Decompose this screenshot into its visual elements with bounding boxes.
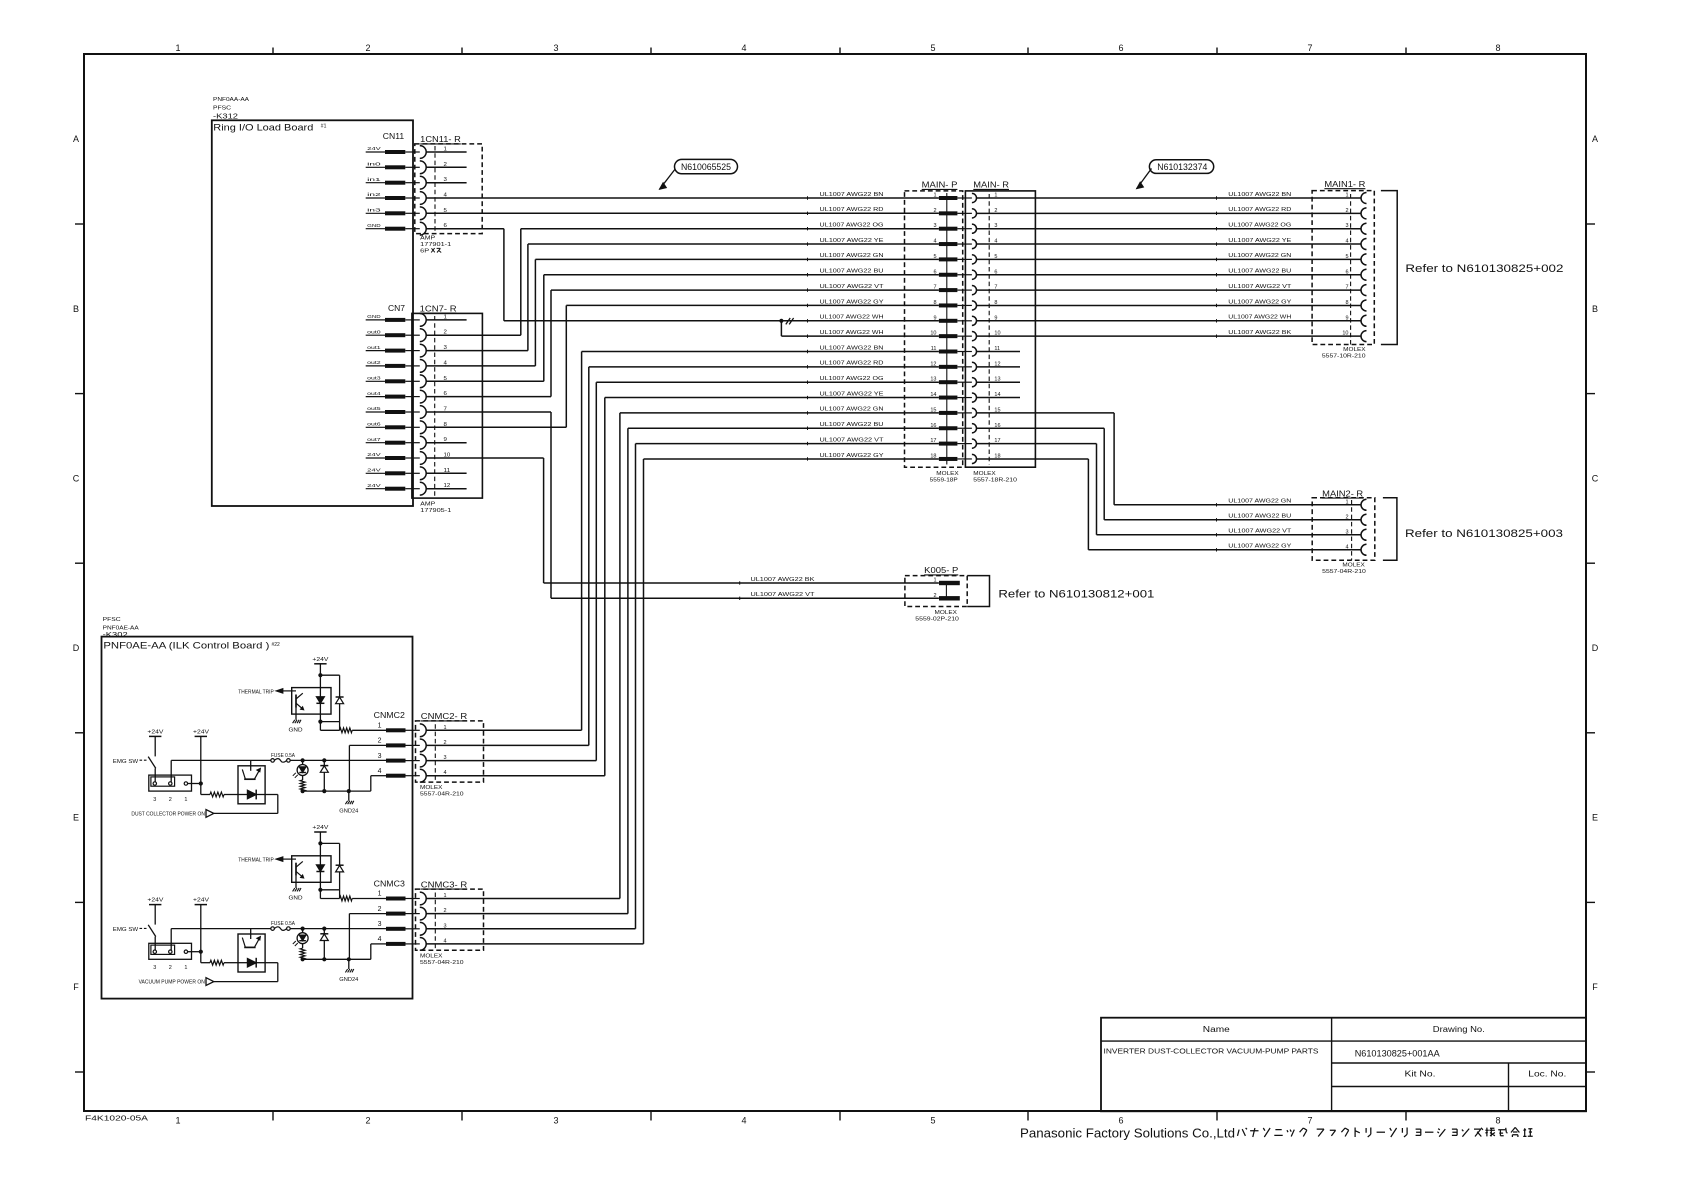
MAIN-P to MAIN-R mating wire pin 1 xyxy=(957,197,972,199)
wire 1CN7-R pin 8 vertical rise xyxy=(565,305,567,427)
wire MAIN-P pin 15 (GN) horizontal xyxy=(620,412,939,414)
clamp diode D1 cathode bar (CNMC2 thermal) xyxy=(336,696,344,698)
svg-text:D: D xyxy=(73,643,80,653)
indicator LED wire down (CNMC3) xyxy=(302,944,304,949)
switch EMG SW dashed link (CNMC2) xyxy=(140,759,149,761)
wire MAIN-P pin 16 (BU) horizontal xyxy=(628,427,939,429)
svg-text:10: 10 xyxy=(1342,331,1348,337)
phototransistor base bar (CNMC2 thermal) xyxy=(295,695,297,708)
wire resistor R2 to optocoupler (CNMC3) xyxy=(224,962,238,964)
resistor R2 (CNMC3 opto drive) xyxy=(210,960,224,965)
svg-text:3: 3 xyxy=(153,965,156,971)
MAIN-P to MAIN-R mating wire pin 7 xyxy=(957,289,972,291)
ground symbol GND24 (CNMC2) xyxy=(345,801,353,804)
MAIN-R pin 7 socket arc xyxy=(972,286,977,295)
border frame xyxy=(84,54,1586,1111)
MAIN-P pin 12 bar xyxy=(939,365,958,369)
svg-text:4: 4 xyxy=(378,768,382,775)
wire corner down (CNMC2) xyxy=(277,795,279,814)
connector 1CN11-R internal dashed line xyxy=(434,146,436,234)
wire bus vertical to CNMC3-R pin 2 xyxy=(627,428,629,913)
junction dot contact feed (CNMC2) xyxy=(199,781,203,785)
MAIN1-R wire tick pin 2 xyxy=(1216,212,1218,215)
ground GND24 lead (CNMC2) xyxy=(348,791,350,801)
svg-text:A: A xyxy=(1592,134,1598,144)
wire corner down (CNMC3) xyxy=(277,963,279,982)
board K302 ILK Control Board outline xyxy=(102,637,413,999)
wire to resistor R2 (CNMC2) xyxy=(201,794,210,796)
CN11 pin 6 lead xyxy=(366,228,385,230)
svg-text:UL1007 AWG22 YE: UL1007 AWG22 YE xyxy=(820,391,884,397)
signal flag triangle (CNMC2) xyxy=(206,810,214,818)
MAIN-P wire tick pin 1 xyxy=(807,196,809,199)
svg-text:5559-18P: 5559-18P xyxy=(930,478,959,484)
svg-text:C: C xyxy=(1592,473,1599,483)
phototransistor base bar (CNMC3 thermal) xyxy=(295,863,297,876)
1CN7-R pin 1 socket arc xyxy=(405,319,420,321)
svg-text:out0: out0 xyxy=(367,329,381,335)
wire contact 1 to junction (CNMC3) xyxy=(188,951,201,953)
svg-text:UL1007 AWG22 WH: UL1007 AWG22 WH xyxy=(820,315,884,321)
CNMC2-R pin 4 socket arc xyxy=(406,775,420,777)
indicator LED emission arrows (CNMC3) xyxy=(295,943,298,946)
svg-text:4: 4 xyxy=(444,938,447,944)
wire MAIN-P pin 11 (BN) horizontal xyxy=(582,351,939,353)
MAIN-P wire tick pin 12 xyxy=(807,365,809,368)
wire MAIN-R pin 2 to MAIN1-R pin 2 (RD) xyxy=(977,212,1362,214)
CN7 pin 10 lead xyxy=(366,457,385,459)
connector MAIN2-R dashed outline xyxy=(1312,498,1375,561)
wire GND branch vertical xyxy=(780,321,782,336)
connector MAIN-P label underline xyxy=(922,188,958,190)
CN11 pin 1 lead xyxy=(366,151,385,153)
svg-text:EMG SW: EMG SW xyxy=(113,927,138,933)
wire horizontal to CNMC3-R pin 4 xyxy=(426,943,643,945)
1CN11-R pin 2 socket arc xyxy=(405,166,420,168)
svg-text:Refer to N610130825+003: Refer to N610130825+003 xyxy=(1405,528,1563,540)
wire riser to pin 4 (CNMC3) xyxy=(370,944,372,959)
connector CNMC2-R dashed outline xyxy=(416,721,484,782)
CN7 pin 2 lead xyxy=(366,334,385,336)
connector MAIN1-R label underline xyxy=(1324,188,1365,190)
svg-text:5: 5 xyxy=(1345,254,1348,260)
MAIN-P to MAIN-R mating wire pin 2 xyxy=(957,212,972,214)
MAIN-P to MAIN-R mating wire pin 6 xyxy=(957,274,972,276)
svg-text:2: 2 xyxy=(933,593,936,599)
CN11 pin 2 lead xyxy=(366,166,385,168)
contact terminal 3 circle (CNMC3) xyxy=(153,950,156,953)
MAIN-P pin 8 bar xyxy=(939,303,958,307)
svg-text:1: 1 xyxy=(184,965,187,971)
svg-text:UL1007 AWG22 BN: UL1007 AWG22 BN xyxy=(820,192,884,198)
wire to MAIN-P pin 8 (GY) xyxy=(566,304,939,306)
svg-text:MOLEX: MOLEX xyxy=(420,785,443,791)
balloon label N610132374 xyxy=(1149,160,1213,174)
wire GND branch to MAIN-P pin 10 (WH) xyxy=(781,335,939,337)
power +24V bar (EMG CNMC3) xyxy=(149,904,161,906)
MAIN1-R pin 7 socket arc xyxy=(1361,285,1366,296)
MAIN-P pin 2 bar xyxy=(939,211,958,215)
1CN7-R pin 12 stub wire xyxy=(426,488,466,490)
MAIN-P wire tick pin 14 xyxy=(807,396,809,399)
junction dot clamp D2 (CNMC3) xyxy=(322,927,326,931)
resistor R1 (CNMC2 thermal, to pin 1) xyxy=(340,728,353,733)
svg-text:UL1007 AWG22 VT: UL1007 AWG22 VT xyxy=(820,437,885,443)
clamp diode D2 triangle (CNMC2) xyxy=(320,766,328,773)
wire MAIN-R pin 3 to MAIN1-R pin 3 (OG) xyxy=(977,228,1362,230)
svg-text:6: 6 xyxy=(1345,269,1348,275)
CN11 pin 4 lead xyxy=(366,197,385,199)
wire 1CN7-R pin 6 vertical rise xyxy=(550,290,552,397)
K005-P wire tick pin 1 xyxy=(739,581,741,584)
svg-text:out4: out4 xyxy=(367,391,381,397)
1CN11-R pin 1 stub wire xyxy=(426,151,466,153)
clamp diode D2 wire down (CNMC2) xyxy=(323,772,325,791)
optocoupler box (CNMC3 thermal trip) xyxy=(292,856,331,883)
1CN7-R pin 9 stub wire xyxy=(426,442,466,444)
wire GND vertical drop xyxy=(503,229,505,321)
opto input LED cathode bar (CNMC3 relay) xyxy=(255,958,257,968)
svg-text:CN11: CN11 xyxy=(383,132,405,141)
CN7 pin 10 bar xyxy=(385,456,405,460)
MAIN-P pin 11 bar xyxy=(939,350,958,354)
wire to resistor R2 (CNMC3) xyxy=(201,962,210,964)
wire MAIN-R pin 15 vertical drop xyxy=(1113,413,1115,505)
wire junction to clamp diode (CNMC2 thermal) xyxy=(320,674,339,676)
MAIN-R pin 5 socket arc xyxy=(972,255,977,264)
wire MAIN-R pin 6 to MAIN1-R pin 6 (BU) xyxy=(977,274,1362,276)
opto collector riser to rail (CNMC3) xyxy=(250,929,252,939)
CN7 pin 11 lead xyxy=(366,472,385,474)
MAIN-P pin 5 bar xyxy=(939,257,958,261)
MAIN-P wire tick pin 3 xyxy=(807,227,809,230)
wire +24V to junction (CNMC3 thermal) xyxy=(319,832,321,843)
1CN7-R pin 12 socket arc xyxy=(405,488,420,490)
svg-text:N610065525: N610065525 xyxy=(681,162,731,172)
MAIN-R pin 2 socket arc xyxy=(972,209,977,218)
MAIN-R pin 16 socket arc xyxy=(972,424,977,433)
K005-P pin 1 bar xyxy=(939,581,960,585)
1CN7-R pin 10 socket arc xyxy=(405,457,420,459)
ground symbol GND24 (CNMC3) xyxy=(345,969,353,972)
1CN11-R pin 3 socket arc xyxy=(405,182,420,184)
svg-text:UL1007 AWG22 BU: UL1007 AWG22 BU xyxy=(1228,514,1291,520)
wire MAIN-R pin 7 to MAIN1-R pin 7 (VT) xyxy=(977,289,1362,291)
wire riser to pin 4 (CNMC2) xyxy=(370,776,372,791)
wire 1CN7-R pin 6 horizontal xyxy=(426,396,551,398)
indicator LED wire down (CNMC2) xyxy=(302,776,304,781)
svg-text:F: F xyxy=(1592,982,1598,992)
CN7 pin 7 lead xyxy=(366,411,385,413)
1CN7-R pin 4 socket arc xyxy=(405,365,420,367)
svg-text:Panasonic Factory Solutions Co: Panasonic Factory Solutions Co.,Ltd xyxy=(1020,1127,1235,1141)
wire 1CN11-R pin 5 to MAIN-P pin 2 (RD) xyxy=(426,212,939,214)
wire out to corner (CNMC2) xyxy=(265,794,278,796)
MAIN-P pin 13 bar xyxy=(939,380,958,384)
opto transistor emitter (CNMC2 relay) xyxy=(254,770,259,779)
svg-text:3: 3 xyxy=(1345,529,1348,535)
bottom rail (CNMC3) xyxy=(303,958,371,960)
phototransistor collector (CNMC2 thermal) xyxy=(296,693,303,699)
wire junction down (CNMC2) xyxy=(200,784,202,795)
relay contact block inner box (CNMC3) xyxy=(151,945,175,954)
CN11 pin 5 bar xyxy=(385,211,405,215)
svg-text:#22: #22 xyxy=(272,642,281,648)
wire bus vertical to CNMC2-R pin 1 xyxy=(581,352,583,731)
wire horizontal to CNMC3-R pin 2 xyxy=(426,913,628,915)
wire contact 1 to junction (CNMC2) xyxy=(188,783,201,785)
svg-text:B: B xyxy=(1592,304,1598,314)
svg-text:UL1007 AWG22 RD: UL1007 AWG22 RD xyxy=(820,361,884,367)
connector CNMC3-R internal dashed line xyxy=(434,893,436,950)
wire out to corner (CNMC3) xyxy=(265,962,278,964)
wire MAIN-R pin 4 to MAIN1-R pin 4 (YE) xyxy=(977,243,1362,245)
opto LED cathode bar (CNMC2 thermal) xyxy=(316,702,324,704)
svg-text:Ring I/O Load Board: Ring I/O Load Board xyxy=(213,123,313,134)
connector MAIN-P dashed outline xyxy=(905,191,963,467)
optocoupler relay box (CNMC3) xyxy=(238,934,265,972)
wire contact 2 riser (CNMC3) xyxy=(170,929,172,950)
svg-text:2: 2 xyxy=(1345,514,1348,520)
connector MAIN-P internal pin line xyxy=(946,193,948,465)
CN11 pin 3 lead xyxy=(366,182,385,184)
svg-text:CNMC3: CNMC3 xyxy=(374,879,406,888)
rail fuse to pin 3 (CNMC2) xyxy=(290,759,386,761)
wire across at pin1 level (CNMC2 thermal) xyxy=(320,729,339,731)
svg-text:8: 8 xyxy=(1345,300,1348,306)
svg-text:UL1007 AWG22 GY: UL1007 AWG22 GY xyxy=(820,299,884,305)
svg-text:1: 1 xyxy=(378,723,382,730)
contact terminal 2 circle (CNMC2) xyxy=(169,782,172,785)
wire drop to pin1 level right (CNMC3 thermal) xyxy=(339,890,341,899)
svg-text:1: 1 xyxy=(444,893,447,899)
svg-text:24V: 24V xyxy=(367,468,382,474)
1CN7-R pin 3 socket arc xyxy=(405,350,420,352)
connector 1CN11-R label underline xyxy=(420,143,461,145)
wire drop to pin1 level right (CNMC2 thermal) xyxy=(339,722,341,731)
CN7 pin 3 bar xyxy=(385,349,405,353)
clamp diode D1 wire top (CNMC3 thermal) xyxy=(339,843,341,865)
svg-text:B: B xyxy=(73,304,79,314)
wire 1CN7-R pin 7 horizontal xyxy=(426,411,551,413)
indicator LED circle (CNMC2) xyxy=(302,760,304,764)
wire bus vertical to CNMC3-R pin 3 xyxy=(635,444,637,929)
svg-text:4: 4 xyxy=(1345,239,1348,245)
svg-text:4: 4 xyxy=(741,1116,746,1126)
CN7 pin 4 bar xyxy=(385,364,405,368)
CN7 pin 6 lead xyxy=(366,396,385,398)
MAIN1-R wire tick pin 4 xyxy=(1216,242,1218,245)
MAIN-R pin 8 socket arc xyxy=(972,301,977,310)
svg-text:UL1007 AWG22 YE: UL1007 AWG22 YE xyxy=(1228,238,1291,244)
MAIN-P wire tick pin 17 xyxy=(807,442,809,445)
svg-text:1CN11- R: 1CN11- R xyxy=(420,135,461,144)
clamp diode D2 cathode bar (CNMC3) xyxy=(320,933,328,935)
clamp diode D2 wire down (CNMC3) xyxy=(323,941,325,960)
svg-text:PFSC: PFSC xyxy=(103,617,121,623)
CNMC2-R pin 2 socket arc xyxy=(406,744,420,746)
balloon N610132374 leader line xyxy=(1137,169,1152,189)
1CN11-R pin 1 socket arc xyxy=(405,151,420,153)
bottom rail (CNMC2) xyxy=(303,790,371,792)
MAIN-P wire tick pin 13 xyxy=(807,381,809,384)
svg-text:UL1007 AWG22 GY: UL1007 AWG22 GY xyxy=(820,453,884,459)
wire contact 2 riser (CNMC2) xyxy=(170,760,172,781)
svg-text:8: 8 xyxy=(1495,43,1500,53)
CN7 pin 3 lead xyxy=(366,350,385,352)
junction dot GND24 tap (CNMC3) xyxy=(347,957,351,961)
svg-text:177901-1: 177901-1 xyxy=(420,242,451,248)
svg-text:UL1007 AWG22 OG: UL1007 AWG22 OG xyxy=(820,376,884,382)
svg-text:-K302: -K302 xyxy=(103,630,128,639)
title block divider Kit/Loc xyxy=(1508,1063,1510,1111)
svg-text:E: E xyxy=(73,813,79,823)
connector 1CN7-R outline xyxy=(412,313,483,498)
CN7 pin 12 lead xyxy=(366,488,385,490)
svg-text:Name: Name xyxy=(1203,1025,1231,1034)
svg-text:UL1007 AWG22 WH: UL1007 AWG22 WH xyxy=(1228,315,1291,321)
MAIN-P to MAIN-R mating wire pin 15 xyxy=(957,412,972,414)
svg-text:24V: 24V xyxy=(367,452,382,458)
signal flag triangle (CNMC3) xyxy=(206,978,214,986)
svg-text:5557-04R-210: 5557-04R-210 xyxy=(420,960,464,966)
twisted pair marker slashes xyxy=(786,318,790,324)
CN7 pin 1 lead xyxy=(366,319,385,321)
opto LED cathode bar (CNMC3 thermal) xyxy=(316,871,324,873)
wire MAIN-P pin 12 (RD) horizontal xyxy=(589,366,939,368)
1CN7-R pin 11 socket arc xyxy=(405,472,420,474)
wire 1CN7-R pin 7 vertical drop xyxy=(550,412,552,598)
title block row line under drawing no xyxy=(1332,1062,1586,1064)
svg-text:4: 4 xyxy=(378,936,382,943)
wire to MAIN-P pin 6 (BU) xyxy=(544,274,939,276)
svg-text:5557-18R-210: 5557-18R-210 xyxy=(973,478,1017,484)
connector K005-P label underline xyxy=(924,574,958,576)
svg-text:THERMAL TRIP: THERMAL TRIP xyxy=(238,689,274,695)
svg-text:PNF0AE-AA (ILK Control Board: PNF0AE-AA (ILK Control Board ) xyxy=(103,640,269,651)
MAIN-P wire tick pin 9 xyxy=(807,319,809,322)
MAIN-R pin 10 socket arc xyxy=(972,332,977,341)
1CN11-R pin 6 socket arc xyxy=(405,228,420,230)
resistor R2 (CNMC2 opto drive) xyxy=(210,792,224,797)
MAIN1-R wire tick pin 1 xyxy=(1216,196,1218,199)
CN7 pin 7 bar xyxy=(385,410,405,414)
wire to MAIN-P pin 7 (VT) xyxy=(551,289,939,291)
wire MAIN-R pin 18 vertical drop xyxy=(1087,459,1089,550)
1CN7-R pin 6 socket arc xyxy=(405,396,420,398)
contact terminal 1 circle (CNMC2) xyxy=(184,782,187,785)
wire MAIN-R pin 17 horizontal xyxy=(977,443,1097,445)
wire MAIN-P pin 13 (OG) horizontal xyxy=(596,381,939,383)
svg-text:UL1007 AWG22 RD: UL1007 AWG22 RD xyxy=(820,207,884,213)
svg-text:MOLEX: MOLEX xyxy=(1342,563,1365,569)
1CN11-R pin 2 stub wire xyxy=(426,166,466,168)
THERMAL TRIP arrow line (CNMC2) xyxy=(282,690,297,692)
connector 1CN11-R dashed outline xyxy=(415,144,482,234)
MAIN-R pin 14 socket arc xyxy=(972,393,977,402)
MAIN2-R wire tick pin 4 xyxy=(1216,548,1218,551)
MAIN1-R wire tick pin 6 xyxy=(1216,273,1218,276)
wire bus vertical to CNMC3-R pin 1 xyxy=(619,413,621,899)
MAIN1-R bracket xyxy=(1381,191,1397,345)
svg-text:Loc. No.: Loc. No. xyxy=(1528,1070,1566,1079)
svg-text:3: 3 xyxy=(444,755,447,761)
MAIN-P to MAIN-R mating wire pin 5 xyxy=(957,258,972,260)
CN7 pin 4 lead xyxy=(366,365,385,367)
CNMC3 pin 2 bar xyxy=(386,912,406,916)
MAIN-P to MAIN-R mating wire pin 13 xyxy=(957,381,972,383)
rail fuse to pin 3 (CNMC3) xyxy=(290,928,386,930)
svg-text:7: 7 xyxy=(1345,285,1348,291)
connector MAIN-R outline xyxy=(965,191,1035,467)
MAIN1-R wire tick pin 3 xyxy=(1216,227,1218,230)
wire LED cathode out of box (CNMC3) xyxy=(256,962,265,964)
wire 1CN7-R pin 5 horizontal xyxy=(426,380,544,382)
svg-text:1: 1 xyxy=(175,43,180,53)
MAIN-P to MAIN-R mating wire pin 8 xyxy=(957,304,972,306)
MAIN-P pin 10 bar xyxy=(939,334,958,338)
svg-text:MAIN- R: MAIN- R xyxy=(973,181,1009,190)
svg-text:3: 3 xyxy=(378,921,382,928)
1CN7-R pin 11 stub wire xyxy=(426,472,466,474)
CNMC3-R pin 3 socket arc xyxy=(406,928,420,930)
svg-text:UL1007 AWG22 BK: UL1007 AWG22 BK xyxy=(751,577,815,583)
contact terminal 3 circle (CNMC2) xyxy=(153,782,156,785)
svg-text:UL1007 AWG22 OG: UL1007 AWG22 OG xyxy=(1228,223,1291,229)
CNMC3 pin 3 bar xyxy=(386,927,406,931)
MAIN-P wire tick pin 15 xyxy=(807,411,809,414)
svg-text:INVERTER DUST-COLLECTOR VACUUM: INVERTER DUST-COLLECTOR VACUUM-PUMP PART… xyxy=(1104,1047,1319,1056)
svg-text:4: 4 xyxy=(444,770,447,776)
svg-text:out6: out6 xyxy=(367,422,381,428)
wire back to flag (CNMC2) xyxy=(214,812,278,814)
wire to MAIN2-R pin 2 (BU) xyxy=(1104,519,1361,521)
svg-text:GND24: GND24 xyxy=(339,809,358,815)
svg-text:3: 3 xyxy=(153,797,156,803)
opto LED wire from top rail (CNMC2 thermal) xyxy=(319,675,321,697)
MAIN-R pin 6 socket arc xyxy=(972,270,977,279)
svg-text:1: 1 xyxy=(175,1116,180,1126)
switch EMG SW blade (CNMC3) xyxy=(148,925,156,937)
wire horizontal to CNMC2-R pin 1 xyxy=(426,729,581,731)
MAIN-P wire tick pin 2 xyxy=(807,212,809,215)
CN11 pin 5 lead xyxy=(366,212,385,214)
svg-text:CN7: CN7 xyxy=(388,304,406,313)
MAIN-P pin 3 bar xyxy=(939,227,958,231)
wire 1CN7-R pin 4 horizontal xyxy=(426,365,535,367)
svg-text:K005- P: K005- P xyxy=(924,566,958,575)
connector K005-P dashed outline xyxy=(905,576,967,607)
wire to MAIN2-R pin 4 (GY) xyxy=(1088,549,1361,551)
THERMAL TRIP arrowhead (CNMC3) xyxy=(276,857,283,861)
svg-text:2: 2 xyxy=(378,906,382,913)
wire to K005-P pin 1 (BK) xyxy=(544,582,939,584)
ground symbol (CNMC3 thermal) xyxy=(293,888,301,891)
svg-text:MOLEX: MOLEX xyxy=(973,471,996,477)
svg-text:5: 5 xyxy=(930,1116,935,1126)
wire 1CN7-R pin 2 horizontal xyxy=(426,334,521,336)
wire drop to pin1 level left (CNMC3 thermal) xyxy=(319,890,321,899)
svg-text:D: D xyxy=(1592,643,1599,653)
wire to MAIN2-R pin 3 (VT) xyxy=(1097,534,1362,536)
MAIN-P wire tick pin 10 xyxy=(807,334,809,337)
CN11 pin 2 bar xyxy=(385,165,405,169)
wire 1CN11-R pin 6 GND horizontal xyxy=(426,228,504,230)
junction dot contact feed (CNMC3) xyxy=(199,950,203,954)
wire MAIN-R pin 18 horizontal xyxy=(977,458,1089,460)
optocoupler box (CNMC2 thermal trip) xyxy=(292,688,331,715)
MAIN-P pin 18 bar xyxy=(939,457,958,461)
